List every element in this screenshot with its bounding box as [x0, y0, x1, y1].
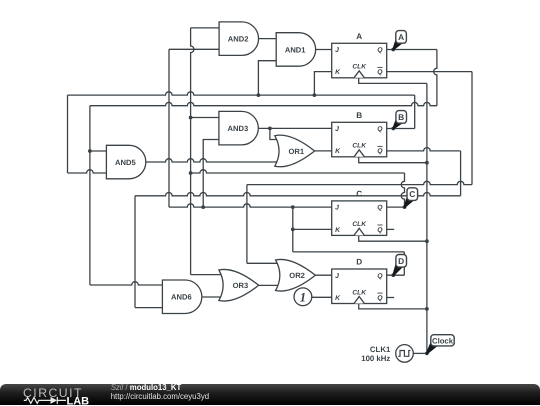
wire OR2 out to FFD J: [315, 274, 331, 276]
svg-text:D: D: [398, 256, 404, 266]
svg-text:AND2: AND2: [228, 35, 249, 44]
svg-text:D: D: [356, 258, 362, 267]
junction flag A tap: [391, 48, 395, 52]
junction net C to AND3: [189, 116, 193, 120]
junction net D to AND3 in2: [201, 205, 205, 209]
jk-flip-flop A: [332, 32, 387, 78]
jk-flip-flop B: [332, 111, 387, 157]
wire net C to AND3 in1: [191, 117, 219, 119]
node flag C: [405, 188, 418, 207]
svg-text:A: A: [398, 32, 404, 42]
wire net D to AND3 in2: [203, 140, 219, 208]
wire AND3 out to FFB J: [258, 127, 331, 129]
svg-text:B: B: [356, 111, 362, 120]
svg-text:CLK: CLK: [352, 143, 367, 150]
wire Qbar_B output: [387, 148, 461, 151]
junction net A to AND5: [88, 149, 92, 153]
wire FF D CLK drop: [359, 304, 427, 309]
wire OR1 out to FFB K: [315, 150, 332, 152]
wire net QbarB vertical right: [460, 151, 462, 196]
wire FFD Qbar stub: [387, 297, 395, 299]
wire net A vertical left: [89, 106, 91, 285]
node flag B: [393, 111, 406, 129]
wire clock vertical bus: [426, 83, 428, 353]
wire net C to AND2 in1: [191, 27, 220, 29]
wire net C to OR3 in1: [191, 274, 223, 276]
wire FFC Qbar stub: [387, 228, 395, 230]
junction net B to FFA K: [313, 93, 317, 97]
wire CLK1 to clock bus: [413, 352, 427, 354]
svg-text:Q: Q: [377, 69, 383, 76]
footer url text: [111, 392, 209, 401]
wire net D vertical far left: [168, 49, 170, 207]
wire net A to AND5 in1: [90, 150, 107, 152]
wire net QbarB vertical left: [134, 196, 136, 308]
wire net A long horizontal: [90, 102, 437, 105]
svg-text:Q: Q: [377, 126, 383, 133]
wire net C horizontal: [191, 170, 405, 173]
svg-text:CLK1: CLK1: [370, 345, 391, 354]
constant-1 source V1: [294, 288, 312, 306]
junction flag C tap: [403, 205, 407, 209]
svg-text:CLK: CLK: [352, 221, 367, 228]
junction clock-FFD: [425, 307, 429, 311]
wire net D J line: [169, 204, 332, 207]
wire net D vertical mid: [292, 207, 294, 252]
junction net D to FFC K: [291, 228, 295, 232]
junction AND3 out branch: [268, 126, 272, 130]
wire FF A CLK drop: [359, 78, 427, 84]
wire net A vertical right: [434, 50, 437, 106]
junction flag D tap: [391, 273, 395, 277]
node flag D: [393, 255, 406, 276]
wire AND6 out to OR3 in2: [202, 296, 223, 298]
wire Qbar_A output: [387, 71, 472, 73]
svg-text:Q: Q: [377, 295, 383, 302]
junction clock source node: [425, 352, 429, 356]
wire net QbarA horizontal: [247, 181, 472, 184]
svg-text:LAB: LAB: [67, 395, 90, 406]
svg-text:OR1: OR1: [288, 147, 304, 156]
or-gate OR1: [275, 135, 315, 167]
wire OR3 out to OR2 in2: [259, 284, 279, 286]
svg-text:CLK: CLK: [352, 289, 367, 296]
wire Q_D output: [387, 274, 405, 276]
wire FF B CLK drop: [359, 157, 427, 163]
wire net B to AND1 in2: [258, 61, 276, 95]
svg-text:J: J: [335, 126, 339, 133]
wire net QbarB to AND6 in2: [135, 307, 162, 309]
svg-text:OR3: OR3: [233, 281, 249, 290]
svg-text:A: A: [356, 32, 362, 41]
wire net D to FFC K: [293, 228, 332, 230]
wire Q_B output: [387, 128, 415, 130]
svg-text:Q: Q: [377, 47, 383, 54]
and-gate AND1: [276, 33, 315, 66]
footer bar: [0, 384, 540, 405]
junction clock-FFC: [425, 239, 429, 243]
wire net QbarA to OR2 in1: [247, 262, 278, 264]
svg-text:1: 1: [300, 290, 307, 305]
svg-text:AND5: AND5: [115, 158, 136, 167]
svg-text:AND6: AND6: [171, 293, 192, 302]
wire net A to AND6 in1: [90, 282, 162, 285]
svg-text:Q: Q: [377, 148, 383, 155]
svg-text:100 kHz: 100 kHz: [361, 354, 390, 363]
clock source CLK1: [396, 345, 414, 363]
node flag Clock: [427, 335, 454, 354]
svg-text:Clock: Clock: [432, 336, 454, 345]
junction clock-FFB: [425, 161, 429, 165]
wire net B vertical left: [67, 95, 69, 173]
jk-flip-flop C: [332, 190, 387, 236]
wire net QbarB long horizontal: [135, 193, 461, 196]
wire Q_C output: [387, 206, 405, 208]
and-gate AND3: [219, 111, 258, 144]
svg-text:CLK: CLK: [352, 64, 367, 71]
node flag A: [393, 31, 406, 50]
junction net D on J line: [291, 205, 295, 209]
wire net D vertical right: [403, 252, 405, 275]
and-gate AND2: [219, 22, 258, 56]
CircuitLab logo: [18, 384, 118, 406]
and-gate AND6: [162, 280, 201, 314]
wire net B vertical right: [414, 95, 416, 128]
wire net QbarA vertical mid: [246, 185, 248, 264]
wire net B long horizontal: [68, 92, 415, 95]
wire AND1 out to FFA J: [316, 49, 332, 51]
svg-text:C: C: [356, 190, 362, 199]
svg-text:C: C: [409, 189, 415, 199]
wire FF C CLK drop: [359, 235, 427, 241]
svg-text:OR2: OR2: [289, 271, 305, 280]
junction net C on left bus: [189, 171, 193, 175]
wire net QbarA vertical right: [471, 72, 473, 185]
junction flag B tap: [391, 127, 395, 131]
svg-text:J: J: [335, 273, 339, 280]
wire AND5 out to OR1 in2: [146, 159, 279, 162]
svg-text:Q: Q: [377, 227, 383, 234]
wire net B to AND5 in2: [68, 170, 107, 173]
wire net B to FFA K: [314, 72, 331, 96]
jk-flip-flop D: [332, 258, 387, 304]
wire V1 const to FFD K: [312, 296, 332, 298]
wire net C vertical right: [401, 173, 404, 207]
or-gate OR3: [219, 269, 259, 301]
svg-text:AND1: AND1: [285, 45, 306, 54]
svg-text:J: J: [335, 205, 339, 212]
wire net C left bus vertical: [191, 28, 194, 275]
svg-text:Q: Q: [377, 273, 383, 280]
and-gate AND5: [106, 145, 145, 179]
wire AND3 out to OR1 in1: [270, 128, 278, 139]
footer title text: [111, 383, 182, 392]
svg-text:J: J: [335, 47, 339, 54]
wire AND2 out to AND1 in1: [259, 38, 277, 40]
svg-text:AND3: AND3: [228, 124, 249, 133]
wire net D to AND2 in2: [169, 48, 219, 50]
junction net B to AND1: [257, 93, 261, 97]
svg-text:Q: Q: [377, 205, 383, 212]
wire net D horizontal: [293, 251, 405, 253]
svg-text:B: B: [398, 112, 404, 122]
or-gate OR2: [276, 259, 316, 291]
wire Q_A output: [387, 49, 437, 51]
